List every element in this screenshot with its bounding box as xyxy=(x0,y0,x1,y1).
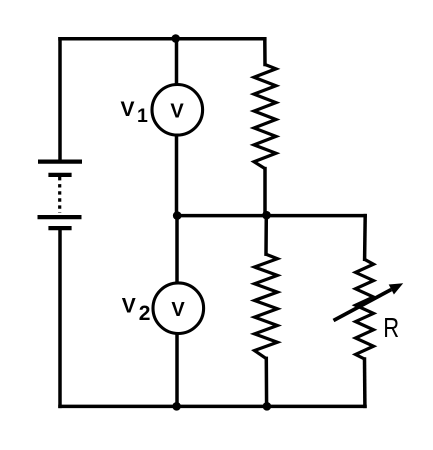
node bottom middle (R2 branch / bottom wire) xyxy=(263,402,272,411)
wire R3 branch bottom xyxy=(363,359,367,406)
wire middle horizontal xyxy=(177,214,366,218)
node bottom left (V2 branch / bottom wire) xyxy=(172,402,181,411)
wire R1 branch top xyxy=(263,39,267,65)
variable resistor R zigzag xyxy=(356,259,374,359)
variable resistor arrow line xyxy=(334,290,392,321)
svg-text:1: 1 xyxy=(137,105,148,127)
battery short plate 2 xyxy=(48,226,71,230)
svg-text:2: 2 xyxy=(139,302,151,325)
resistor bottom-middle xyxy=(255,254,278,358)
wire R1 branch bottom xyxy=(263,169,267,216)
wire left vertical lower (battery to bottom) xyxy=(58,229,62,406)
svg-text:V: V xyxy=(171,299,185,321)
battery dotted line xyxy=(58,177,61,213)
wire left vertical upper (to battery) xyxy=(58,39,62,162)
voltmeter V2 circle xyxy=(153,283,204,334)
wire V1 branch top xyxy=(175,39,179,85)
wire bottom horizontal xyxy=(60,405,365,409)
battery long plate 2 xyxy=(38,215,82,219)
node middle (R2 branch / middle wire) xyxy=(262,211,271,220)
wire V1 branch bottom xyxy=(175,136,179,216)
wire R2 branch bottom xyxy=(265,358,269,406)
voltmeter V1 circle xyxy=(152,85,203,136)
node top (V1 branch / top wire) xyxy=(171,34,180,43)
svg-text:V: V xyxy=(170,101,184,123)
battery long plate 1 xyxy=(38,160,82,164)
svg-text:R: R xyxy=(383,313,399,344)
svg-text:V: V xyxy=(122,294,136,317)
wire top horizontal xyxy=(60,37,265,41)
wire R3 branch top xyxy=(363,216,367,260)
wire R2 branch top xyxy=(264,216,268,255)
battery short plate 1 xyxy=(48,173,71,177)
resistor top-right xyxy=(254,65,276,169)
wire V2 branch top xyxy=(175,216,179,283)
svg-text:V: V xyxy=(121,98,135,121)
variable resistor arrowhead xyxy=(389,283,404,294)
wire V2 branch bottom xyxy=(175,334,179,406)
node middle left (V branch / middle wire) xyxy=(173,211,182,220)
